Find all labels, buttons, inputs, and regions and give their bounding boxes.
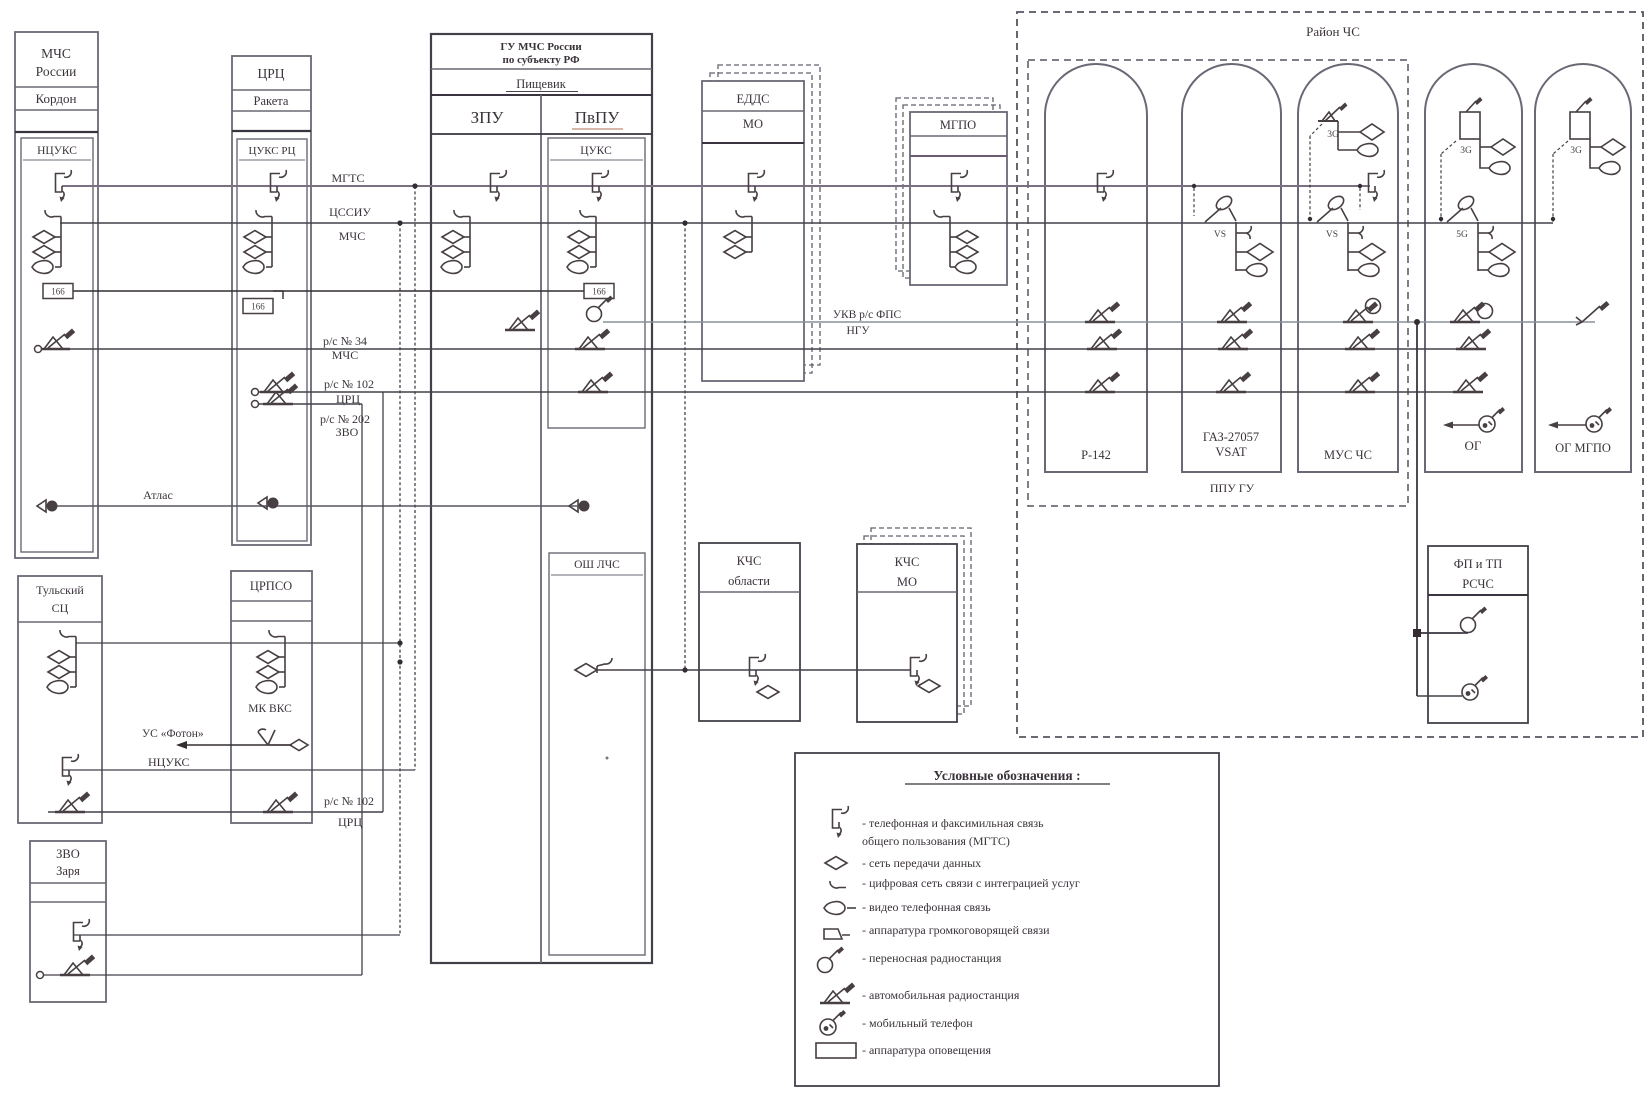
car radio ЦУКС РЦ 1	[260, 372, 295, 393]
shadow box КЧС МО 1	[864, 536, 964, 714]
svg-text:ОГ: ОГ	[1465, 438, 1482, 453]
dashed drop ОГМГПО 3G diag	[1553, 141, 1568, 154]
car radio ГАЗ 2	[1218, 329, 1253, 350]
wire УС Фотон	[178, 744, 292, 746]
junction МГТС x415	[412, 183, 417, 188]
svg-text:Пищевик: Пищевик	[516, 77, 566, 91]
svg-text:ОШ ЛЧС: ОШ ЛЧС	[574, 559, 620, 571]
svg-text:РСЧС: РСЧС	[1462, 577, 1494, 591]
divider under ГУ МЧС	[431, 68, 652, 70]
phone ПвПУ	[593, 170, 609, 202]
svg-text:- видео телефонная связь: - видео телефонная связь	[862, 900, 991, 914]
network combo ЦУКС РЦ	[243, 210, 272, 273]
inner box ОШ ЛЧС	[549, 553, 645, 955]
svg-text:ЦУКС: ЦУКС	[580, 145, 612, 157]
phone Тульский	[63, 754, 79, 786]
inner box ЦУКС РЦ	[237, 139, 307, 541]
terminal Атлас ПвПУ	[569, 500, 590, 512]
outer box ГУ МЧС России	[431, 34, 652, 963]
svg-text:ФП и ТП: ФП и ТП	[1454, 557, 1503, 571]
shadow box МГПО 1	[903, 105, 1000, 278]
svg-text:МО: МО	[743, 117, 763, 131]
car radio МУС ЧС 3	[1345, 372, 1380, 393]
dashed drop МУС 3G diag	[1310, 124, 1322, 136]
unit box ГАЗ-27057 VSAT	[1182, 64, 1281, 472]
network combo МГПО	[934, 210, 978, 273]
annunciator 166 ЦУКС РЦ	[243, 299, 273, 314]
junction МГТС x1194	[1192, 184, 1196, 188]
junction x400 y662	[397, 659, 402, 664]
svg-text:России: России	[36, 64, 77, 79]
terminal circle НЦУКС radio	[35, 346, 42, 353]
dashed drop ОГ 3G diag	[1441, 141, 1456, 154]
svg-text:Тульский: Тульский	[36, 583, 84, 597]
wire ЦССИУ МЧС bus	[60, 222, 1553, 224]
box Тульский СЦ	[18, 576, 102, 823]
3G tower combo ОГ МГПО	[1570, 97, 1625, 174]
wire Атлас bus	[57, 505, 577, 507]
dashed drop VSAT-МГТС	[1193, 188, 1195, 216]
svg-text:ОГ МГПО: ОГ МГПО	[1555, 441, 1611, 455]
divider under МЧС России	[15, 86, 98, 88]
svg-text:МЧС: МЧС	[41, 46, 71, 61]
car radio ОГ 1	[1450, 302, 1485, 323]
box МГПО	[910, 112, 1007, 285]
svg-text:- мобильный телефон: - мобильный телефон	[862, 1016, 973, 1030]
network symbol ОШ ЛЧС	[575, 658, 620, 677]
svg-text:МГТС: МГТС	[332, 171, 365, 185]
3G tower combo ОГ	[1460, 97, 1515, 174]
outer box ЦРЦ Ракета	[232, 56, 311, 545]
svg-text:Условные обозначения :: Условные обозначения :	[933, 768, 1080, 783]
network combo Тульский	[47, 630, 76, 693]
underline ЦУКС	[550, 159, 643, 161]
svg-text:- телефонная и факсимильная св: - телефонная и факсимильная связь	[862, 816, 1044, 830]
phone ЗПУ	[491, 170, 507, 202]
stray dot artifact	[606, 757, 609, 760]
divider under Пищевик	[431, 94, 652, 96]
car radio МУС ЧС 1	[1343, 302, 1378, 323]
svg-text:Район ЧС: Район ЧС	[1306, 24, 1360, 39]
wire vertical МГТС-Тульский	[414, 186, 416, 770]
car radio НЦУКС	[40, 329, 75, 350]
phone МГПО	[952, 170, 968, 202]
junction ЦССИУ x1310	[1308, 217, 1312, 221]
divider ЗВО	[30, 882, 106, 884]
svg-text:- аппаратура громкоговорящей с: - аппаратура громкоговорящей связи	[862, 923, 1050, 937]
divider ЦРПСО 2	[231, 620, 312, 622]
svg-text:- цифровая сеть связи с интегр: - цифровая сеть связи с интеграцией услу…	[862, 876, 1080, 890]
outer box МЧС России Кордон	[15, 32, 98, 558]
svg-text:ЗПУ: ЗПУ	[471, 108, 505, 127]
satellite dish МУС ЧС	[1317, 194, 1385, 277]
car radio ЦРПСО	[263, 792, 298, 813]
svg-text:166: 166	[592, 287, 606, 297]
divider under ЦРЦ	[232, 89, 311, 91]
svg-text:НГУ: НГУ	[846, 325, 870, 337]
wire Тульский phone to МГТС	[62, 769, 415, 771]
portable radio ПвПУ	[587, 296, 614, 322]
svg-text:Атлас: Атлас	[143, 488, 173, 502]
box ЗВО Заря	[30, 841, 106, 1002]
phone ЕДДС	[749, 170, 765, 202]
svg-text:- автомобильная радиостанция: - автомобильная радиостанция	[862, 988, 1020, 1002]
svg-text:3G: 3G	[1460, 146, 1472, 156]
underline ЦУКС РЦ	[239, 159, 305, 161]
svg-text:области: области	[728, 574, 770, 588]
car radio Р-142 3	[1085, 372, 1120, 393]
diamond КЧС области	[757, 686, 779, 699]
dashed drop МУС 3G-ЦССИУ	[1309, 136, 1311, 223]
svg-text:ППУ ГУ: ППУ ГУ	[1210, 481, 1255, 495]
divider under Кордон	[15, 109, 98, 111]
svg-text:ЕДДС: ЕДДС	[736, 92, 769, 106]
car radio ЗПУ	[505, 310, 540, 331]
underline legend title	[905, 783, 1110, 785]
dashed region ППУ ГУ	[1028, 60, 1408, 506]
wire vertical ЦССИУ-ЗВО	[399, 223, 401, 935]
phone Р-142	[1098, 170, 1114, 202]
svg-text:Р-142: Р-142	[1081, 448, 1111, 462]
terminal circle ЗВО radio	[37, 972, 44, 979]
car radio ПвПУ 2	[578, 372, 613, 393]
diamond КЧС МО	[918, 680, 940, 693]
junction ЦССИУ x685	[682, 220, 687, 225]
wire р/с 102 bus	[254, 391, 1467, 393]
svg-text:НЦУКС: НЦУКС	[148, 755, 190, 769]
network combo ЦРПСО	[256, 630, 285, 693]
arrowhead УС Фотон	[176, 741, 187, 749]
divider МГПО 2	[910, 155, 1007, 157]
junction МГТС x1360	[1358, 184, 1362, 188]
wire Тульский ISDN to ЦССИУ	[76, 642, 400, 644]
annunciator 166 НЦУКС	[43, 284, 73, 299]
wire ЗВО radio to р/с202	[40, 974, 362, 976]
svg-text:УС «Фотон»: УС «Фотон»	[142, 728, 204, 740]
dashed drop ОГ 3G-ЦССИУ	[1440, 154, 1442, 223]
svg-text:- сеть передачи данных: - сеть передачи данных	[862, 856, 981, 870]
car radio ЦУКС РЦ 2	[263, 384, 298, 405]
annunciator 166 ПвПУ	[584, 284, 614, 299]
dashed region Район ЧС	[1017, 12, 1643, 737]
divider ЗВО 2	[30, 901, 106, 903]
underline ОШ ЛЧС	[551, 574, 643, 576]
divider КЧС МО	[857, 591, 957, 593]
phone НЦУКС	[56, 170, 72, 202]
wire stub ФП portable	[1462, 632, 1468, 634]
svg-text:5G: 5G	[1456, 230, 1468, 240]
divider ЕДДС	[702, 110, 804, 112]
phone МУС ЧС	[1369, 170, 1385, 202]
wire radio net Тульский-ЦРПСО	[48, 811, 383, 813]
wire МГТС bus	[62, 185, 1370, 187]
svg-text:КЧС: КЧС	[895, 555, 920, 569]
svg-text:р/с № 34: р/с № 34	[323, 334, 367, 348]
svg-text:НЦУКС: НЦУКС	[37, 145, 77, 157]
unit box Р-142	[1045, 64, 1147, 472]
legend annunciator rect	[816, 1043, 856, 1058]
junction КЧС x685	[682, 667, 687, 672]
svg-text:166: 166	[251, 302, 265, 312]
unit box МУС ЧС	[1298, 64, 1398, 472]
legend horn symbol	[824, 929, 850, 939]
wire р/с 34 bus	[42, 348, 1467, 350]
svg-text:VS: VS	[1326, 230, 1338, 240]
svg-text:3G: 3G	[1570, 146, 1582, 156]
legend videophone symbol	[824, 902, 856, 915]
network combo ПвПУ	[567, 210, 596, 273]
legend phone symbol	[833, 806, 849, 838]
divider ФП и ТП	[1428, 594, 1528, 596]
wire 166 hook v	[282, 291, 284, 299]
network combo ЕДДС	[724, 210, 752, 259]
divider thick ЦРЦ	[232, 130, 311, 132]
svg-text:- аппаратура оповещения: - аппаратура оповещения	[862, 1043, 992, 1057]
phone КЧС МО	[911, 654, 927, 686]
terminal circle ЦУКС РЦ radio 2	[252, 401, 259, 408]
junction square ФП	[1413, 629, 1421, 637]
wire УКВ бус	[603, 321, 1595, 323]
junction x400 y643	[397, 640, 402, 645]
portable radio ФПиТП	[1461, 607, 1488, 633]
junction ЦССИУ x1441	[1439, 217, 1443, 221]
portable circle ОГ	[1478, 304, 1493, 319]
svg-text:МО: МО	[897, 575, 917, 589]
svg-text:- переносная радиостанция: - переносная радиостанция	[862, 951, 1002, 965]
unit box ОГ	[1425, 64, 1522, 472]
car radio ОГ 3	[1453, 372, 1488, 393]
svg-text:ЗВО: ЗВО	[336, 425, 359, 439]
svg-text:УКВ р/с ФПС: УКВ р/с ФПС	[833, 309, 902, 321]
car radio Р-142 1	[1085, 302, 1120, 323]
shadow box ЕДДС 1	[710, 73, 812, 373]
svg-text:МК ВКС: МК ВКС	[248, 703, 292, 715]
divider under Ракета	[232, 110, 311, 112]
wire vertical УКВ-ФПиТП	[1416, 322, 1418, 696]
box КЧС области	[699, 543, 800, 721]
divider ЦРПСО	[231, 600, 312, 602]
wire vertical р/с102-ЦРПСО	[382, 392, 384, 812]
wire vertical р/с202-ЗВО	[361, 404, 363, 975]
terminal circle ЦУКС РЦ radio 1	[252, 389, 259, 396]
phone ЦУКС РЦ	[271, 170, 287, 202]
svg-text:ГАЗ-27057: ГАЗ-27057	[1203, 430, 1259, 444]
box КЧС МО	[857, 544, 957, 722]
divider under ЗПУ ПвПУ	[431, 133, 652, 135]
svg-text:общего пользования (МГТС): общего пользования (МГТС)	[862, 834, 1010, 848]
mobile phone ОГ	[1443, 407, 1505, 432]
box ЦРПСО	[231, 571, 312, 823]
wire vertical ЦССИУ-КЧС	[684, 223, 686, 670]
wire to ФП portable	[1417, 632, 1462, 634]
svg-text:ЦРЦ: ЦРЦ	[257, 66, 284, 81]
car radio МУС ЧС 2	[1345, 329, 1380, 350]
svg-text:ЦССИУ: ЦССИУ	[329, 205, 371, 219]
car radio ОГ 2	[1456, 329, 1491, 350]
videoconference antenna МК ВКС	[258, 729, 308, 750]
shadow box МГПО 2	[896, 98, 993, 271]
svg-text:Ракета: Ракета	[254, 94, 289, 108]
wire 166 bus	[73, 290, 584, 292]
wire р/с 202 horiz	[254, 403, 362, 405]
svg-text:166: 166	[51, 287, 65, 297]
divider КЧС области	[699, 591, 800, 593]
junction УКВ x1417	[1414, 319, 1420, 325]
svg-text:Кордон: Кордон	[36, 91, 77, 106]
svg-text:р/с № 102: р/с № 102	[324, 377, 374, 391]
mobile phone ФПиТП	[1462, 675, 1488, 700]
unit box ОГ МГПО	[1535, 64, 1631, 472]
svg-text:по субъекту РФ: по субъекту РФ	[502, 54, 580, 66]
antenna ОГ МГПО	[1576, 301, 1610, 325]
car radio Тульский	[55, 792, 90, 813]
svg-text:Заря: Заря	[56, 864, 80, 878]
car radio ПвПУ 1	[575, 329, 610, 350]
terminal Атлас НЦУКС	[37, 500, 58, 512]
junction ЦССИУ x400	[397, 220, 402, 225]
legend mobile phone	[820, 1010, 846, 1035]
divider Тульский	[18, 621, 102, 623]
svg-text:МГПО: МГПО	[940, 118, 976, 132]
shadow box КЧС МО 2	[871, 528, 971, 706]
underline НЦУКС	[23, 159, 91, 161]
divider thick	[15, 131, 98, 133]
dashed drop МУС-МГТС	[1359, 188, 1361, 210]
dashed drop ОГМГПО 3G-ЦССИУ	[1552, 154, 1554, 223]
svg-text:КЧС: КЧС	[737, 554, 762, 568]
satellite dish VSAT ГАЗ	[1205, 194, 1273, 277]
car radio Р-142 2	[1087, 329, 1122, 350]
legend diamond symbol	[825, 857, 847, 870]
car radio ЗВО	[60, 955, 95, 976]
underline Пищевик	[506, 91, 578, 93]
legend isdn symbol	[830, 881, 846, 888]
svg-text:ЦУКС РЦ: ЦУКС РЦ	[249, 145, 296, 157]
svg-text:ПвПУ: ПвПУ	[575, 108, 621, 127]
svg-text:СЦ: СЦ	[52, 601, 69, 615]
network combo НЦУКС	[32, 210, 61, 273]
box ФП и ТП РСЧС	[1428, 546, 1528, 723]
terminal Атлас ЦУКС РЦ	[258, 497, 279, 509]
phone КЧС области	[750, 654, 766, 686]
svg-text:р/с № 102: р/с № 102	[324, 794, 374, 808]
svg-text:МЧС: МЧС	[332, 348, 358, 362]
svg-text:VSAT: VSAT	[1215, 445, 1247, 459]
legend box	[795, 753, 1219, 1086]
satellite dish ОГ	[1447, 194, 1515, 277]
divider МГПО	[910, 135, 1007, 137]
svg-text:ГУ МЧС России: ГУ МЧС России	[500, 41, 582, 53]
svg-text:ЦРПСО: ЦРПСО	[250, 579, 292, 593]
shadow box ЕДДС 2	[718, 65, 820, 365]
phone ЗВО	[74, 919, 90, 951]
mobile phone ОГ МГПО	[1548, 407, 1612, 432]
network combo ЗПУ	[441, 210, 470, 273]
inner box НЦУКС	[21, 138, 93, 552]
portable circle МУС ЧС	[1366, 299, 1381, 314]
3G antenna combo МУС ЧС	[1318, 103, 1384, 157]
car radio ГАЗ 3	[1216, 372, 1251, 393]
wire ЗВО phone to ЦССИУ	[73, 934, 400, 936]
svg-text:МЧС: МЧС	[339, 229, 365, 243]
svg-text:ЗВО: ЗВО	[56, 847, 80, 861]
divider ЕДДС 2	[702, 142, 804, 144]
wire to ФП mobile	[1417, 695, 1462, 697]
wire 166 hook h	[273, 290, 283, 292]
svg-text:3G: 3G	[1327, 130, 1339, 140]
box ЕДДС МО	[702, 81, 804, 381]
svg-text:VS: VS	[1214, 230, 1226, 240]
underline ПвПУ	[572, 128, 623, 130]
wire КЧС net	[620, 669, 911, 671]
car radio ГАЗ 1	[1217, 302, 1252, 323]
svg-text:ЦРЦ: ЦРЦ	[338, 815, 362, 829]
inner box ЦУКС ПвПУ	[548, 138, 645, 428]
legend car radio	[820, 983, 855, 1004]
column divider ЗПУ ПвПУ	[540, 95, 542, 963]
svg-text:МУС ЧС: МУС ЧС	[1324, 448, 1372, 462]
legend portable radio	[818, 947, 845, 973]
junction ЦССИУ x1553	[1551, 217, 1555, 221]
